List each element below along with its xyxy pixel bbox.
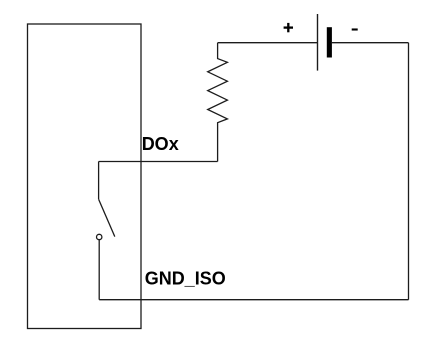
wire battery left: [218, 42, 318, 44]
switch SW1 contact circle: [97, 234, 102, 239]
battery BT1: [318, 14, 332, 71]
wire GND_ISO horizontal: [99, 299, 408, 301]
resistor: [208, 43, 228, 162]
wire battery right: [332, 42, 409, 44]
wire right vertical: [408, 43, 410, 300]
switch SW1 top lead: [98, 162, 100, 200]
switch SW1 bottom lead: [98, 240, 100, 300]
svg-text:DOx: DOx: [142, 134, 179, 154]
label +: [284, 23, 293, 32]
svg-text:GND_ISO: GND_ISO: [145, 269, 226, 289]
label -: [352, 28, 358, 30]
wire DOx horizontal: [99, 161, 218, 163]
switch SW1 blade: [99, 199, 115, 236]
module box U1: [28, 24, 142, 329]
